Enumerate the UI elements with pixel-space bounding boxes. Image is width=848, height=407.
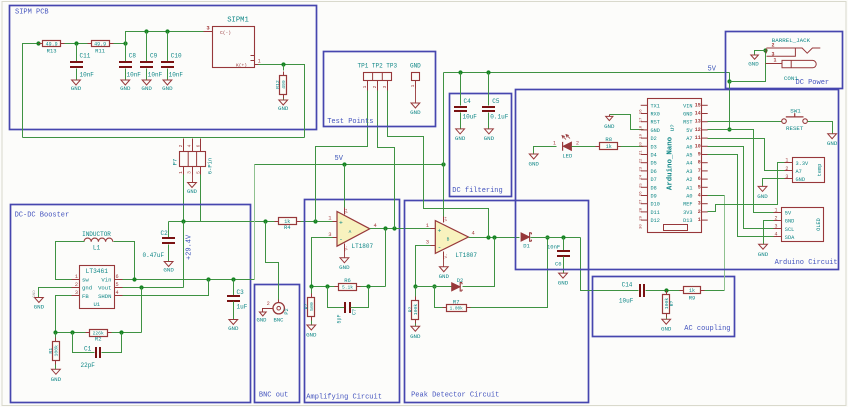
ground arduino left: [610, 115, 644, 130]
svg-text:12: 12: [695, 127, 701, 133]
svg-text:BNC: BNC: [274, 317, 285, 324]
svg-text:10nF: 10nF: [169, 72, 184, 79]
ground U2A: [340, 258, 349, 263]
ground DC power: [751, 55, 759, 59]
svg-text:GND: GND: [455, 135, 466, 142]
wire output node to Vout row: [183, 222, 185, 288]
block SIPM PCB: [10, 6, 317, 130]
svg-text:1: 1: [410, 84, 416, 87]
svg-text:R9: R9: [689, 295, 696, 302]
wire D2 row left: [416, 286, 452, 288]
pin 6 A2 of U?: [701, 178, 708, 180]
pin 12 5V of U?: [701, 129, 708, 131]
svg-text:1: 1: [698, 217, 701, 223]
resistor R8: [600, 143, 618, 150]
svg-text:GND: GND: [796, 177, 806, 183]
svg-text:V+: V+: [346, 208, 350, 213]
node C5 junction: [486, 70, 490, 74]
svg-text:GND: GND: [33, 290, 37, 298]
pin 3 of temp: [785, 178, 793, 180]
svg-text:GND: GND: [757, 193, 768, 200]
svg-text:3: 3: [187, 171, 193, 174]
pin 2 of OLED: [774, 220, 782, 222]
svg-text:C5: C5: [492, 98, 500, 105]
ground C4: [456, 129, 465, 134]
pin 1 of P7: [183, 167, 185, 175]
svg-text:1.00k: 1.00k: [450, 307, 464, 312]
node Vin junction: [132, 277, 136, 281]
wire A0 to R9: [708, 195, 725, 197]
svg-text:TX1: TX1: [651, 103, 660, 109]
svg-text:500: 500: [309, 302, 315, 311]
pin TP3: [387, 81, 389, 91]
svg-text:GND: GND: [162, 85, 173, 92]
wire C8 node riser: [126, 32, 204, 44]
svg-text:1uF: 1uF: [237, 304, 248, 311]
resistor R11: [92, 41, 110, 47]
wire P7 pin5 to +29.4V node: [200, 175, 202, 222]
svg-text:Amplifying Circuit: Amplifying Circuit: [306, 393, 382, 401]
svg-text:GND: GND: [34, 304, 45, 311]
svg-text:4: 4: [698, 193, 701, 199]
pin 3 of P7: [192, 167, 194, 175]
connector P2 BNC: [278, 300, 280, 303]
pin 4 of OLED: [774, 236, 782, 238]
svg-text:RX0: RX0: [651, 112, 660, 118]
node arduino 5V junction: [727, 127, 731, 131]
ground C11: [72, 80, 81, 85]
svg-text:D10: D10: [651, 202, 660, 208]
wire TP2 tap: [378, 91, 395, 229]
svg-text:GND: GND: [604, 123, 615, 130]
svg-text:9: 9: [698, 152, 701, 158]
svg-text:D7: D7: [651, 177, 657, 183]
wire temp gnd: [763, 179, 785, 187]
svg-text:0.47uF: 0.47uF: [143, 252, 165, 259]
wire sipm loop bottom: [23, 137, 305, 139]
capacitor C3: [233, 280, 235, 296]
svg-text:C9: C9: [150, 53, 158, 60]
pin 16 TX1 of U?: [641, 104, 648, 106]
wire 5V riser to arduino: [729, 82, 731, 130]
node R13 input junction: [36, 41, 40, 45]
svg-text:GND: GND: [410, 333, 421, 340]
resistor R6 feedback: [339, 284, 357, 291]
svg-text:2: 2: [772, 42, 775, 48]
op-amp U2B V- to ground: [443, 252, 445, 260]
svg-text:GND: GND: [651, 128, 660, 134]
wire R2 to Vout branch: [112, 332, 142, 334]
svg-text:A1: A1: [686, 185, 692, 191]
svg-text:1: 1: [774, 58, 777, 64]
node amp input junction: [313, 219, 317, 223]
svg-text:-: -: [339, 236, 343, 243]
svg-text:R11: R11: [95, 47, 106, 54]
pin 6 of U1: [115, 279, 123, 281]
svg-text:U?: U?: [669, 124, 676, 131]
node TP2 junction: [392, 226, 396, 230]
svg-text:1: 1: [258, 59, 261, 65]
wire power rail corner: [729, 73, 731, 82]
svg-text:D8: D8: [651, 185, 657, 191]
pin 24 D6 of U?: [641, 170, 648, 172]
node jack junction: [763, 48, 767, 52]
svg-text:R?: R?: [407, 307, 413, 313]
svg-text:C8: C8: [129, 53, 137, 60]
pin 1 of U2B: [431, 228, 436, 230]
wire D1 to C6: [531, 237, 581, 239]
node TP3 junction: [486, 235, 490, 239]
pin 15 VIN of U?: [701, 104, 708, 106]
op-amp U2A LT1807: [337, 212, 370, 247]
svg-text:GND: GND: [410, 63, 421, 70]
svg-text:2: 2: [698, 209, 701, 215]
pin 3 of U1: [72, 295, 80, 297]
svg-text:K(+): K(+): [236, 62, 247, 68]
pin 17 RX0 of U?: [641, 113, 648, 115]
wire R11 to C8 node: [114, 43, 126, 45]
capacitor C5: [488, 73, 490, 106]
resistor R5 to ground: [311, 287, 313, 297]
svg-text:CON1: CON1: [784, 75, 798, 82]
svg-text:2: 2: [774, 216, 777, 222]
svg-text:2: 2: [576, 141, 579, 147]
svg-text:C1: C1: [84, 346, 92, 353]
resistor R12: [283, 65, 285, 71]
node C4 junction: [458, 70, 462, 74]
svg-text:Arduino Circuit: Arduino Circuit: [775, 259, 838, 267]
svg-text:GND: GND: [120, 85, 131, 92]
wire P7 pin1 to +29.4V node: [183, 175, 185, 222]
svg-text:sw: sw: [82, 277, 89, 284]
wire jack to gnd: [755, 51, 766, 56]
block AC coupling: [593, 277, 735, 337]
svg-text:R1: R1: [48, 348, 54, 354]
pin 1 of U1: [72, 279, 80, 281]
svg-text:3: 3: [426, 239, 429, 246]
pin 4 of P7: [192, 139, 194, 152]
svg-text:10uF: 10uF: [463, 114, 478, 121]
pin 1 of temp: [785, 162, 793, 164]
wire 3V3 to temp: [708, 163, 785, 212]
node C1 left junction: [70, 330, 74, 334]
svg-text:3: 3: [785, 174, 788, 180]
node C8 junction: [123, 41, 127, 45]
pin 25 D7 of U?: [641, 178, 648, 180]
svg-text:GND: GND: [278, 105, 289, 112]
svg-text:LED: LED: [562, 153, 573, 160]
ground C10: [163, 80, 172, 85]
svg-text:D12: D12: [651, 218, 660, 224]
regulator U1 LT3461: [80, 266, 115, 309]
svg-text:R?: R?: [669, 301, 675, 307]
node feedback junction: [383, 226, 387, 230]
svg-text:10nF: 10nF: [80, 72, 95, 79]
resistor R13: [43, 41, 61, 47]
svg-text:Peak Detector Circuit: Peak Detector Circuit: [411, 392, 499, 400]
svg-text:22pF: 22pF: [81, 362, 96, 369]
svg-text:6: 6: [116, 274, 119, 280]
svg-text:1: 1: [178, 171, 184, 174]
wire feedback row: [312, 286, 386, 288]
pin TP1: [367, 81, 369, 91]
svg-text:100k: 100k: [54, 345, 60, 357]
node peak fb mid junction: [432, 284, 436, 288]
svg-text:100k: 100k: [413, 304, 419, 316]
ground C2: [164, 262, 173, 267]
wire L1 right to Vin node: [114, 242, 135, 280]
svg-text:D9: D9: [651, 194, 657, 200]
svg-text:GND: GND: [141, 85, 152, 92]
svg-text:2: 2: [785, 166, 788, 172]
ground LED: [529, 154, 538, 159]
svg-text:R6: R6: [344, 277, 351, 284]
svg-text:INDUCTOR: INDUCTOR: [82, 231, 111, 238]
svg-text:A7: A7: [796, 169, 802, 175]
svg-text:R12: R12: [275, 80, 281, 89]
diode D1: [521, 233, 530, 241]
svg-text:499: 499: [281, 80, 287, 89]
pin 28 D10 of U?: [641, 203, 648, 205]
wire inverting input rail: [416, 246, 431, 287]
net 5V top rail: [444, 72, 730, 74]
svg-text:GND: GND: [163, 267, 174, 274]
svg-text:13: 13: [695, 119, 701, 125]
wire signal to BNC: [266, 222, 279, 300]
ground peak 100k: [411, 326, 420, 331]
node Vout branch junction: [139, 285, 143, 289]
capacitor C4: [460, 73, 462, 106]
svg-text:6: 6: [195, 144, 201, 147]
svg-text:D5: D5: [651, 161, 657, 167]
svg-text:BNC out: BNC out: [259, 392, 288, 400]
wire SIPM1 K to R12 node: [259, 64, 284, 66]
svg-text:C(-): C(-): [220, 30, 231, 36]
wire U1 FB pin down to divider: [56, 296, 72, 333]
wire R13 to C11: [65, 43, 88, 45]
ground AC 100k: [662, 319, 671, 324]
svg-text:D2: D2: [457, 277, 464, 284]
wire power to jack: [730, 51, 766, 82]
pin 5 of U1: [115, 287, 123, 289]
svg-text:RESET: RESET: [786, 125, 804, 132]
wire TP1 tap: [316, 91, 368, 222]
wire GND header down: [415, 89, 417, 104]
block Peak Detector Circuit: [405, 201, 589, 403]
pin 3 of U2A: [333, 237, 338, 239]
svg-text:GND: GND: [827, 140, 838, 147]
wire A7 to temp: [708, 139, 785, 171]
ground P7 pin3: [192, 175, 194, 183]
wire D2 cathode to output: [463, 238, 495, 287]
svg-text:GND: GND: [228, 325, 239, 332]
pin 4 of U1: [115, 295, 123, 297]
svg-text:LT3461: LT3461: [86, 268, 109, 275]
pin 23 D5 of U?: [641, 162, 648, 164]
pin 9 A5 of U?: [701, 154, 708, 156]
pin 20 D2 of U?: [641, 137, 648, 139]
svg-text:A2: A2: [686, 177, 692, 183]
svg-text:GND: GND: [51, 376, 62, 383]
svg-text:3.3V: 3.3V: [796, 161, 810, 167]
svg-text:GND: GND: [339, 264, 350, 271]
svg-text:+: +: [339, 219, 343, 226]
connector P7 6-Pin: [180, 152, 206, 167]
diode D2: [452, 283, 461, 291]
svg-text:+29.4V: +29.4V: [186, 234, 194, 260]
svg-text:D3: D3: [651, 144, 657, 150]
pin 3 of OLED: [774, 228, 782, 230]
ground U1 gnd: [35, 298, 44, 303]
svg-text:U1: U1: [93, 301, 100, 308]
capacitor C7: [328, 287, 345, 308]
ground C8: [121, 80, 130, 85]
svg-text:+: +: [438, 227, 442, 234]
svg-text:R8: R8: [605, 136, 612, 143]
pin 1 of BNC to ground: [263, 309, 274, 313]
svg-text:SW1: SW1: [790, 108, 801, 115]
svg-text:P7: P7: [172, 159, 179, 166]
resistor peak 100k to ground: [415, 287, 417, 301]
svg-text:14: 14: [695, 111, 701, 117]
svg-text:R2: R2: [95, 336, 102, 343]
svg-text:LT1807: LT1807: [352, 243, 374, 250]
resistor R2: [90, 330, 108, 337]
pin 18 RST of U?: [641, 121, 648, 123]
svg-text:A: A: [349, 229, 352, 235]
capacitor C14: [639, 284, 641, 297]
svg-text:1: 1: [785, 158, 788, 164]
svg-text:Vin: Vin: [101, 277, 111, 284]
wire feedback row: [56, 332, 90, 334]
svg-text:GND: GND: [683, 112, 692, 118]
node feedback left junction: [309, 284, 313, 288]
pin 2 of U1: [72, 287, 80, 289]
svg-text:2: 2: [372, 85, 378, 88]
svg-text:GND: GND: [758, 251, 769, 258]
wire Vout row: [123, 287, 184, 289]
svg-text:1k: 1k: [606, 144, 612, 150]
node AC coupling junction: [664, 288, 668, 292]
node C1 right junction: [119, 330, 123, 334]
node C11 junction: [74, 41, 78, 45]
pin 5 A1 of U?: [701, 186, 708, 188]
svg-text:A5: A5: [686, 153, 692, 159]
svg-text:SIPM1: SIPM1: [227, 17, 249, 25]
svg-text:BARREL_JACK: BARREL_JACK: [772, 37, 811, 44]
pin 19 GND of U?: [641, 129, 648, 131]
svg-text:15: 15: [695, 102, 701, 108]
capacitor C8: [125, 44, 127, 62]
capacitor C10: [167, 32, 169, 62]
svg-text:3: 3: [698, 201, 701, 207]
svg-text:1: 1: [362, 85, 368, 88]
wire Vin row 5V: [123, 279, 255, 281]
net +29.4V wire: [169, 221, 338, 223]
pin 1 D13 of U?: [701, 219, 708, 221]
svg-text:C6: C6: [555, 261, 562, 268]
svg-text:SIPM PCB: SIPM PCB: [15, 9, 49, 17]
svg-text:5V: 5V: [785, 211, 792, 217]
wire sipm loop right: [284, 65, 305, 138]
svg-text:A6: A6: [686, 144, 692, 150]
wire sipm loop left: [23, 44, 39, 138]
LED D3: [562, 142, 564, 151]
block BNC out: [255, 285, 300, 403]
svg-text:1k: 1k: [689, 288, 695, 294]
node 5V amp supply junction: [342, 162, 346, 166]
svg-text:A0: A0: [686, 194, 692, 200]
svg-text:GND: GND: [187, 188, 198, 195]
svg-text:temp: temp: [817, 164, 823, 177]
display OLED: [782, 208, 824, 242]
op-amp U2B LT1807: [435, 221, 468, 254]
pin 26 D8 of U?: [641, 186, 648, 188]
svg-text:0.1uF: 0.1uF: [490, 114, 508, 121]
svg-text:GND: GND: [661, 326, 672, 333]
pin 1 of U2A: [333, 221, 338, 223]
svg-text:5pF: 5pF: [337, 314, 343, 323]
svg-text:1: 1: [553, 141, 556, 147]
pin 30 D12 of U?: [641, 219, 648, 221]
node C6 junction: [561, 235, 565, 239]
wire A0 riser: [724, 196, 726, 291]
svg-text:Vout: Vout: [98, 285, 111, 292]
ground C6: [559, 273, 568, 278]
pin 22 D4 of U?: [641, 154, 648, 156]
node C3 junction: [231, 277, 235, 281]
svg-text:D2: D2: [651, 136, 657, 142]
pin 8 A4 of U?: [701, 162, 708, 164]
wire R7 to output node: [471, 238, 548, 308]
pin 14 GND of U?: [701, 113, 708, 115]
ground U2B: [439, 267, 448, 272]
pin 13 RST of U?: [701, 121, 708, 123]
svg-text:R4: R4: [284, 224, 291, 231]
svg-text:TP1 TP2 TP3: TP1 TP2 TP3: [358, 63, 398, 70]
op-amp V- to ground: [344, 244, 346, 252]
svg-text:LT1807: LT1807: [455, 252, 477, 259]
svg-text:1: 1: [75, 274, 78, 280]
svg-text:AC coupling: AC coupling: [684, 325, 730, 333]
svg-text:D1: D1: [523, 242, 530, 249]
svg-text:RST: RST: [683, 120, 692, 126]
svg-text:7: 7: [698, 168, 701, 174]
svg-text:A7: A7: [686, 136, 692, 142]
svg-text:10uF: 10uF: [619, 298, 634, 305]
svg-text:GND: GND: [410, 109, 421, 116]
svg-text:6: 6: [698, 176, 701, 182]
sensor temp: [793, 158, 825, 183]
block Test Points: [324, 52, 436, 127]
ground R5: [307, 325, 316, 330]
svg-text:3: 3: [75, 290, 78, 296]
svg-text:4: 4: [187, 144, 193, 147]
wire amp output: [370, 228, 431, 230]
svg-text:V-: V-: [445, 254, 449, 259]
svg-text:5: 5: [698, 184, 701, 190]
svg-text:D4: D4: [651, 153, 657, 159]
svg-text:GND: GND: [785, 219, 795, 225]
svg-text:SCL: SCL: [785, 227, 795, 233]
svg-text:RST: RST: [651, 120, 660, 126]
node D2 junction: [492, 235, 496, 239]
node R12 junction: [281, 62, 285, 66]
ground C5: [485, 129, 494, 134]
pin 27 D9 of U?: [641, 195, 648, 197]
node peak fb left junction: [413, 284, 417, 288]
block Amplifying Circuit: [305, 200, 400, 403]
